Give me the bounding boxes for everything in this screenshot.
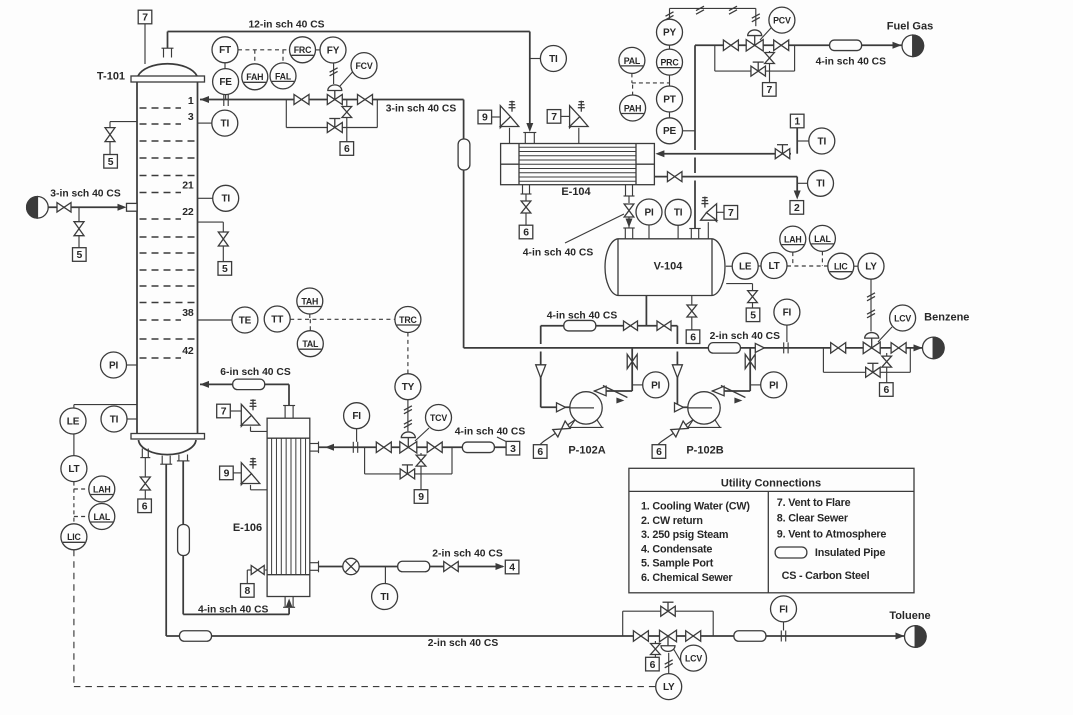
svg-text:6: 6 xyxy=(690,332,696,343)
svg-text:2-in sch 40 CS: 2-in sch 40 CS xyxy=(710,331,781,342)
svg-text:LY: LY xyxy=(865,262,877,273)
svg-text:PI: PI xyxy=(644,207,653,218)
svg-text:PE: PE xyxy=(663,126,676,137)
svg-text:P-102B: P-102B xyxy=(686,445,723,457)
svg-text:P-102A: P-102A xyxy=(568,445,605,457)
svg-text:6: 6 xyxy=(656,447,662,458)
svg-text:7: 7 xyxy=(767,85,773,96)
svg-text:7: 7 xyxy=(142,13,148,24)
svg-text:5: 5 xyxy=(222,264,228,275)
svg-text:FY: FY xyxy=(327,45,340,56)
svg-text:LAH: LAH xyxy=(784,235,801,245)
svg-text:Benzene: Benzene xyxy=(924,312,969,324)
svg-text:TAL: TAL xyxy=(302,339,319,349)
svg-text:4-in sch 40 CS: 4-in sch 40 CS xyxy=(198,605,269,616)
svg-text:LY: LY xyxy=(663,682,675,693)
svg-text:9: 9 xyxy=(224,469,230,480)
svg-text:5: 5 xyxy=(108,157,114,168)
svg-text:E-104: E-104 xyxy=(561,186,591,198)
svg-text:8: 8 xyxy=(245,586,251,597)
svg-text:FE: FE xyxy=(219,77,232,88)
svg-text:4-in sch 40 CS: 4-in sch 40 CS xyxy=(816,57,887,68)
svg-text:PCV: PCV xyxy=(773,16,791,26)
svg-text:TI: TI xyxy=(110,414,119,425)
svg-text:LAL: LAL xyxy=(94,512,111,522)
svg-text:9. Vent to Atmosphere: 9. Vent to Atmosphere xyxy=(777,528,887,540)
svg-text:6-in sch 40 CS: 6-in sch 40 CS xyxy=(220,367,291,378)
svg-text:6. Chemical Sewer: 6. Chemical Sewer xyxy=(641,572,733,584)
svg-text:6: 6 xyxy=(523,228,529,239)
svg-text:LE: LE xyxy=(739,262,752,273)
svg-text:7: 7 xyxy=(728,208,734,219)
svg-text:TI: TI xyxy=(380,592,389,603)
svg-text:12-in sch 40 CS: 12-in sch 40 CS xyxy=(248,20,324,31)
svg-text:9: 9 xyxy=(418,492,424,503)
svg-text:6: 6 xyxy=(884,385,890,396)
svg-text:Utility Connections: Utility Connections xyxy=(721,477,821,489)
svg-text:2: 2 xyxy=(794,203,800,214)
svg-text:38: 38 xyxy=(182,307,194,319)
svg-text:4-in sch 40 CS: 4-in sch 40 CS xyxy=(547,311,618,322)
svg-text:5. Sample Port: 5. Sample Port xyxy=(641,558,714,570)
svg-text:6: 6 xyxy=(142,502,148,513)
svg-text:3-in sch 40 CS: 3-in sch 40 CS xyxy=(50,189,121,200)
svg-text:TAH: TAH xyxy=(301,296,318,306)
svg-text:TI: TI xyxy=(816,179,825,190)
svg-text:LT: LT xyxy=(68,464,79,475)
svg-text:PAL: PAL xyxy=(624,56,641,66)
svg-text:8. Clear Sewer: 8. Clear Sewer xyxy=(777,513,849,525)
svg-text:6: 6 xyxy=(650,660,656,671)
svg-text:9: 9 xyxy=(482,113,488,124)
svg-text:42: 42 xyxy=(182,345,194,357)
svg-text:FRC: FRC xyxy=(294,45,312,55)
svg-text:FAL: FAL xyxy=(275,71,292,81)
svg-text:TCV: TCV xyxy=(430,413,447,423)
svg-text:3: 3 xyxy=(510,444,516,455)
svg-text:FT: FT xyxy=(219,45,231,56)
svg-text:PT: PT xyxy=(663,94,675,105)
svg-text:22: 22 xyxy=(182,206,194,218)
svg-text:LAL: LAL xyxy=(814,234,831,244)
svg-text:LAH: LAH xyxy=(93,484,110,494)
svg-text:LT: LT xyxy=(768,261,779,272)
svg-text:LIC: LIC xyxy=(834,262,848,272)
svg-text:FI: FI xyxy=(352,411,361,422)
svg-text:1: 1 xyxy=(188,95,194,107)
svg-text:LCV: LCV xyxy=(894,313,911,323)
svg-text:TT: TT xyxy=(271,314,283,325)
svg-text:T-101: T-101 xyxy=(97,71,125,83)
svg-text:Insulated Pipe: Insulated Pipe xyxy=(815,547,886,559)
svg-text:E-106: E-106 xyxy=(233,522,262,534)
svg-text:TI: TI xyxy=(818,136,827,147)
svg-text:2-in sch 40 CS: 2-in sch 40 CS xyxy=(428,638,499,649)
svg-text:3. 250 psig Steam: 3. 250 psig Steam xyxy=(641,529,728,541)
svg-text:PI: PI xyxy=(651,380,660,391)
svg-text:4-in sch 40 CS: 4-in sch 40 CS xyxy=(455,427,526,438)
svg-text:TI: TI xyxy=(549,54,558,65)
svg-text:2-in sch 40 CS: 2-in sch 40 CS xyxy=(432,548,503,559)
svg-text:TRC: TRC xyxy=(399,315,417,325)
svg-text:5: 5 xyxy=(750,311,756,322)
svg-text:1: 1 xyxy=(794,117,800,128)
svg-text:2. CW return: 2. CW return xyxy=(641,515,703,527)
svg-text:7. Vent to Flare: 7. Vent to Flare xyxy=(777,497,851,509)
svg-text:4. Condensate: 4. Condensate xyxy=(641,543,712,555)
svg-text:6: 6 xyxy=(537,447,543,458)
svg-text:TI: TI xyxy=(221,194,230,205)
svg-text:4-in sch 40 CS: 4-in sch 40 CS xyxy=(523,248,594,259)
svg-text:PRC: PRC xyxy=(661,58,680,68)
svg-text:FAH: FAH xyxy=(246,72,263,82)
svg-text:PI: PI xyxy=(109,360,118,371)
svg-text:1. Cooling Water (CW): 1. Cooling Water (CW) xyxy=(641,501,750,513)
svg-text:21: 21 xyxy=(182,180,194,192)
svg-text:5: 5 xyxy=(77,250,83,261)
svg-text:TY: TY xyxy=(402,382,415,393)
svg-text:LCV: LCV xyxy=(685,654,702,664)
svg-text:Fuel Gas: Fuel Gas xyxy=(887,21,933,33)
svg-text:7: 7 xyxy=(551,112,557,123)
svg-text:LE: LE xyxy=(67,416,80,427)
svg-text:3-in sch 40 CS: 3-in sch 40 CS xyxy=(386,104,457,115)
svg-text:Toluene: Toluene xyxy=(889,610,930,622)
svg-text:FI: FI xyxy=(783,308,792,319)
svg-text:FCV: FCV xyxy=(356,61,373,71)
svg-text:TI: TI xyxy=(221,119,230,130)
svg-text:4: 4 xyxy=(509,563,515,574)
svg-text:3: 3 xyxy=(188,111,194,123)
svg-text:PI: PI xyxy=(769,380,778,391)
svg-text:TE: TE xyxy=(239,315,252,326)
svg-text:PY: PY xyxy=(663,28,676,39)
svg-text:V-104: V-104 xyxy=(654,261,684,273)
svg-text:7: 7 xyxy=(221,407,227,418)
svg-text:CS - Carbon Steel: CS - Carbon Steel xyxy=(782,570,870,582)
svg-text:TI: TI xyxy=(674,208,683,219)
svg-text:FI: FI xyxy=(779,604,788,615)
svg-text:6: 6 xyxy=(344,144,350,155)
svg-text:PAH: PAH xyxy=(624,103,641,113)
svg-text:LIC: LIC xyxy=(67,532,81,542)
